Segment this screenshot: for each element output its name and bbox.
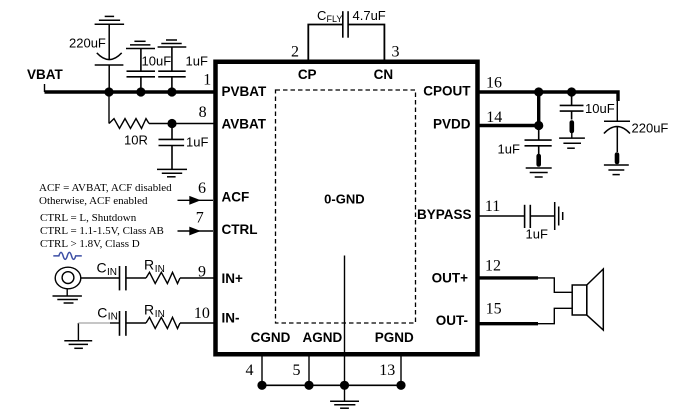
svg-text:BYPASS: BYPASS: [417, 207, 472, 222]
wire pin 15 OUT-: [477, 322, 538, 325]
svg-text:PGND: PGND: [375, 330, 414, 345]
capacitor 10uF (left): [127, 49, 156, 93]
svg-text:AGND: AGND: [303, 330, 343, 345]
svg-text:1: 1: [203, 71, 211, 88]
wire ground to C IN- (light): [78, 322, 110, 324]
0-GND dashed box: [276, 90, 416, 323]
wire pin 12 OUT+: [477, 276, 538, 279]
wire resistor to AVBAT node: [149, 123, 172, 125]
wire junction to PVDD: [537, 92, 540, 126]
IC U1 body: [216, 62, 478, 355]
capacitor CFLY 4.7uF: [343, 11, 348, 38]
wire cap to ground (BYPASS): [530, 215, 554, 217]
svg-text:FLY: FLY: [327, 14, 343, 24]
svg-text:OUT+: OUT+: [432, 270, 468, 285]
svg-text:AVBAT: AVBAT: [222, 117, 267, 132]
svg-text:15: 15: [486, 301, 502, 318]
svg-text:ACF: ACF: [222, 190, 250, 205]
svg-text:PVBAT: PVBAT: [222, 84, 268, 99]
svg-text:5: 5: [293, 362, 301, 379]
svg-text:CGND: CGND: [251, 330, 291, 345]
ground below PVDD 1uF: [526, 168, 552, 177]
svg-text:IN: IN: [108, 312, 118, 323]
svg-text:10R: 10R: [124, 133, 148, 148]
speaker LS1: [572, 269, 603, 330]
svg-text:8: 8: [199, 104, 207, 121]
svg-text:C: C: [97, 260, 107, 276]
svg-text:13: 13: [379, 362, 395, 379]
wire C to R (IN+): [126, 277, 146, 279]
svg-text:R: R: [144, 257, 154, 273]
svg-text:IN: IN: [107, 267, 117, 278]
ground (bottom center): [330, 401, 359, 408]
wire R to pin 10: [180, 322, 216, 324]
svg-text:220uF: 220uF: [69, 36, 106, 51]
ground (flipped) above C 10uF: [126, 41, 155, 48]
svg-text:1uF: 1uF: [186, 54, 208, 69]
wire VBAT to pin 1 PVBAT: [45, 90, 217, 93]
ground below right 220uF: [604, 165, 629, 175]
thick stub (10uF cap): [569, 123, 574, 132]
resistor RIN (IN-): [146, 317, 180, 328]
stem to bottom ground: [344, 385, 346, 401]
ground below AVBAT 1uF: [157, 169, 187, 176]
VBAT terminal stub: [44, 84, 46, 92]
ground bus wire: [262, 384, 401, 386]
stem IN- ground: [77, 323, 79, 341]
svg-text:R: R: [144, 302, 154, 318]
wire down from VBAT to resistor 10R: [108, 92, 110, 124]
resistor RIN (IN+): [146, 272, 180, 283]
wire pin 14 PVDD: [477, 124, 539, 127]
capacitor 1uF (left of pin 1): [158, 47, 186, 92]
junction node PVDD: [534, 121, 543, 130]
svg-text:CPOUT: CPOUT: [423, 84, 471, 99]
svg-text:CTRL = 1.1-1.5V, Class AB: CTRL = 1.1-1.5V, Class AB: [40, 225, 164, 237]
svg-text:3: 3: [392, 43, 400, 60]
wire jack to C IN+: [81, 277, 119, 279]
jack ground stem: [66, 289, 68, 296]
svg-text:CP: CP: [298, 67, 317, 82]
ground (sideways) BYPASS: [555, 202, 563, 230]
thick stub (PVDD cap): [536, 156, 541, 165]
wire OUT+ to speaker: [538, 278, 572, 292]
ground (flipped) above C 1uF: [158, 40, 187, 47]
junction node at 1uF: [167, 87, 176, 96]
svg-text:6: 6: [198, 180, 206, 197]
svg-text:Otherwise, ACF enabled: Otherwise, ACF enabled: [39, 195, 148, 207]
ground below input jack: [53, 296, 82, 303]
arrow into pin 7 CTRL: [178, 227, 214, 236]
arrow into pin 6 ACF: [178, 196, 214, 205]
svg-text:1uF: 1uF: [186, 134, 208, 149]
svg-text:C: C: [97, 304, 107, 320]
svg-text:IN: IN: [155, 309, 165, 320]
svg-text:12: 12: [485, 258, 501, 275]
capacitor 220uF (left, polarized): [95, 24, 124, 92]
wire OUT- to speaker: [538, 308, 572, 323]
svg-text:10uF: 10uF: [585, 101, 615, 116]
signal source squiggle (blue): [53, 252, 82, 259]
svg-text:2: 2: [291, 43, 299, 60]
svg-text:CTRL = L, Shutdown: CTRL = L, Shutdown: [40, 212, 137, 224]
svg-text:4: 4: [246, 362, 254, 379]
wire stub to ground: [571, 131, 573, 138]
input jack inner circle: [62, 272, 74, 284]
resistor 10R: [109, 119, 149, 129]
svg-text:4.7uF: 4.7uF: [353, 8, 386, 23]
svg-text:VBAT: VBAT: [27, 67, 64, 82]
junction node CPOUT/10uF: [567, 87, 576, 96]
capacitor CIN (IN+): [120, 266, 126, 290]
junction node at 220uF: [104, 87, 113, 96]
svg-text:16: 16: [486, 74, 502, 91]
svg-text:C: C: [317, 8, 326, 23]
capacitor 10uF (right): [560, 92, 584, 120]
svg-text:10uF: 10uF: [142, 54, 172, 69]
wire pin 4 CGND: [261, 354, 263, 385]
svg-text:PVDD: PVDD: [433, 117, 471, 132]
wire R to pin 9: [180, 277, 216, 279]
junction node CPOUT/PVDD: [534, 87, 543, 96]
svg-text:IN: IN: [155, 264, 165, 275]
wire pin 16 CPOUT: [477, 92, 618, 101]
svg-text:CN: CN: [374, 67, 394, 82]
capacitor 1uF (PVDD): [525, 126, 552, 155]
svg-text:ACF = AVBAT, ACF disabled: ACF = AVBAT, ACF disabled: [39, 182, 172, 194]
wire CPOUT corner down to 220uF: [616, 101, 618, 121]
svg-text:10: 10: [194, 305, 210, 322]
svg-text:11: 11: [485, 198, 500, 215]
wire pin 2 CP: [308, 25, 343, 61]
svg-text:CTRL: CTRL: [222, 222, 258, 237]
wire pin 5 AGND: [308, 354, 310, 385]
svg-text:7: 7: [196, 209, 204, 226]
svg-text:220uF: 220uF: [632, 121, 669, 136]
svg-text:IN+: IN+: [222, 271, 244, 286]
wire pin 13 PGND: [400, 354, 402, 385]
svg-text:CTRL > 1.8V, Class D: CTRL > 1.8V, Class D: [40, 238, 140, 250]
svg-text:0-GND: 0-GND: [324, 192, 364, 207]
ground for IN- input: [64, 341, 92, 349]
capacitor 1uF (BYPASS): [525, 205, 531, 228]
capacitor 1uF (AVBAT): [159, 124, 185, 170]
junction node at 10uF: [136, 87, 145, 96]
svg-text:OUT-: OUT-: [436, 313, 468, 328]
junction node pin 4: [257, 381, 266, 390]
thick stub (220uF cap): [615, 155, 620, 163]
wire pin 11 BYPASS: [477, 215, 525, 217]
input jack circle: [55, 267, 81, 289]
junction node AVBAT: [167, 119, 176, 128]
junction node pin 5: [304, 381, 313, 390]
wire C to R (IN-): [126, 322, 146, 324]
ground below right 10uF: [559, 138, 585, 148]
wire AVBAT node to pin 8: [172, 123, 216, 125]
capacitor CIN (IN-): [120, 311, 126, 336]
junction node pin 13: [396, 381, 405, 390]
ground (flipped) above C 220uF: [95, 16, 125, 24]
svg-text:1uF: 1uF: [526, 226, 548, 241]
capacitor 220uF (right, polarized): [604, 121, 630, 152]
wire 0-GND sense line to AGND/ground bus: [344, 256, 346, 386]
svg-text:14: 14: [486, 109, 502, 126]
svg-text:1uF: 1uF: [498, 142, 520, 157]
junction node AGND line: [340, 381, 349, 390]
wire pin 3 CN: [348, 25, 384, 61]
svg-text:IN-: IN-: [222, 311, 240, 326]
